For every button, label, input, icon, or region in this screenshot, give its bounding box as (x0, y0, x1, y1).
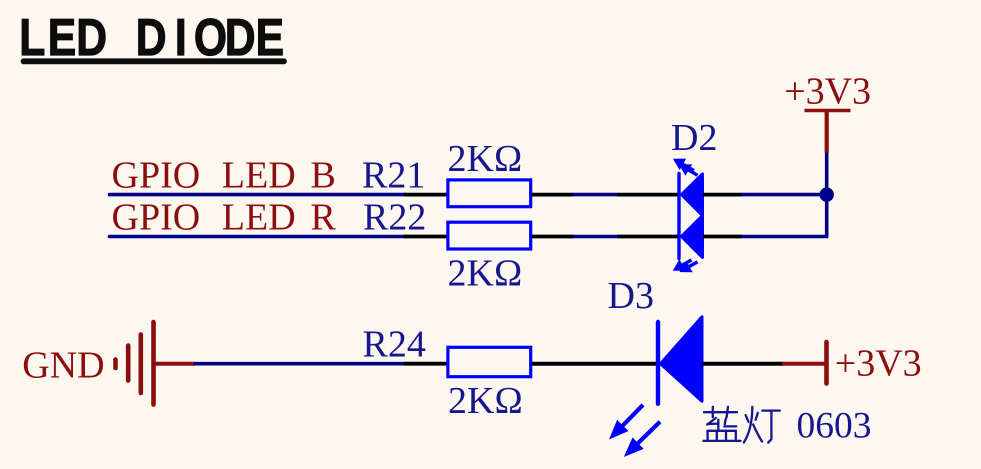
power port +3V3 (right) bar (824, 342, 829, 384)
wire row1 to junction (741, 193, 827, 197)
wire net GPIO_LED_B row1 (110, 193, 406, 197)
wire row2 mid (573, 235, 619, 239)
svg-text:2KΩ: 2KΩ (448, 253, 523, 295)
resistor R24 right pin / wire to D3 (532, 362, 658, 366)
LED D2 pin 3 (right, row1) (703, 193, 742, 197)
svg-text:R22: R22 (363, 197, 426, 239)
LED D2 upper diode triangle (682, 174, 703, 216)
LED D3 right pin (702, 362, 783, 366)
title underline (24, 58, 285, 64)
svg-text:0603: 0603 (797, 406, 872, 447)
power port +3V3 (top) bar (805, 109, 851, 113)
ground symbol bars (116, 322, 154, 405)
junction dot (820, 187, 834, 201)
comment text deng (blue) glyph (744, 407, 780, 443)
wire row1 mid (573, 193, 619, 197)
wire vertical +3V3 feed (825, 152, 829, 237)
svg-text:2KΩ: 2KΩ (448, 138, 523, 180)
svg-text:D2: D2 (671, 117, 717, 159)
resistor R22 left pin (404, 235, 448, 239)
resistor R22 right pin (532, 235, 574, 239)
resistor R21 left pin (404, 193, 448, 197)
svg-text:R24: R24 (363, 324, 426, 366)
svg-text:+3V3: +3V3 (835, 343, 922, 385)
wire net GPIO_LED_R row2 (110, 235, 406, 239)
wire D3 to +3V3 (dark red) (782, 362, 825, 366)
LED D3 triangle (661, 317, 703, 401)
svg-text:R21: R21 (362, 155, 425, 197)
wire GND to R24 (194, 362, 406, 366)
title LED DIODE (19, 9, 284, 67)
comment text lan (blue) glyph (703, 407, 740, 441)
LED D2 emission arrows bottom (674, 260, 698, 272)
LED D3 emission arrows (610, 405, 660, 456)
svg-text:GND: GND (22, 345, 104, 387)
resistor R22 body (448, 222, 531, 249)
LED D2 emission arrows top (674, 159, 698, 175)
resistor R24 body (448, 347, 531, 376)
svg-text:2KΩ: 2KΩ (448, 380, 523, 422)
resistor R21 body (448, 180, 531, 207)
LED D2 pin 2 (left, row2) (618, 235, 679, 239)
svg-text:D3: D3 (608, 275, 654, 317)
LED D2 pin 1 (left, row1) (618, 193, 679, 197)
ground stub (155, 362, 196, 366)
resistor R21 right pin (532, 193, 574, 197)
resistor R24 left pin (404, 362, 448, 366)
svg-text:+3V3: +3V3 (784, 71, 871, 113)
LED D2 pin 4 (right, row2) (703, 235, 742, 239)
LED D2 cathode bar (677, 174, 680, 259)
LED D3 cathode bar (656, 322, 660, 404)
LED D2 lower diode triangle (682, 216, 703, 258)
power port +3V3 (top) stub (825, 111, 829, 153)
wire row2 to corner (741, 235, 828, 239)
